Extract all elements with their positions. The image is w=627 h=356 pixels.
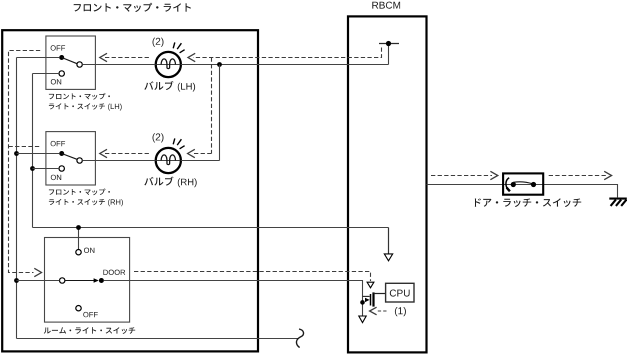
label DOOR (room switch) [103, 270, 125, 275]
label (2) above bulb RH [153, 133, 164, 142]
block U1: CPU box [386, 283, 414, 302]
switch lever (LH) [62, 58, 78, 65]
wire: DOOR terminal to RBCM transistor gate [104, 281, 363, 316]
label: RBCM [372, 2, 400, 9]
bulb RH (lamp symbol) [156, 148, 181, 173]
flow dash: RH OFF stub [9, 146, 41, 148]
wire: branch down to RH row [219, 65, 221, 161]
switch box: door latch switch [503, 173, 543, 194]
wire: ON bus run to RBCM [33, 227, 389, 229]
junction: room switch common tap [14, 278, 19, 283]
transistor Q1 gate lead [363, 295, 370, 297]
contact common terminal (RH switch) [77, 158, 82, 163]
wire: lamp feed riser in RBCM [388, 44, 390, 65]
flow arrow: toward RH switch [105, 153, 151, 155]
label: バルブ (LH) [144, 81, 173, 90]
switch box: room light switch [45, 238, 130, 323]
label: フロント・マップ・ (LH caption line1) [49, 93, 110, 100]
flow dash: DOOR signal to RBCM with down arrow [134, 272, 371, 282]
wire: LH common to bulb LH [82, 64, 155, 66]
label OFF (LH switch) [51, 45, 66, 50]
label ON (LH switch) [51, 79, 61, 84]
junction: RH OFF tap [14, 151, 19, 156]
component box: RBCM module [348, 16, 427, 352]
flow dash: vertical link to RH row [211, 58, 213, 154]
contact common terminal (LH switch) [77, 62, 82, 67]
switch box: front map light switch RH [46, 132, 96, 185]
component box: front map light enclosure [2, 30, 258, 351]
flow dash: link to bulb RH with arrow [193, 153, 212, 155]
wire: RBCM to door latch switch and ground [427, 185, 618, 198]
wire: ON bus drop inside RBCM [388, 228, 390, 254]
contact OFF terminal (room switch) [76, 306, 81, 311]
junction: RH branch tap on lamp feed [217, 62, 222, 67]
label: バルブ (RH) [144, 177, 173, 186]
ground symbol (chassis ground) [609, 199, 627, 206]
contact DOOR terminal (room switch) [99, 278, 104, 283]
flow arrow: RBCM to door latch [431, 175, 492, 177]
bulb LH (lamp symbol) [156, 52, 181, 77]
label: ライト・スイッチ (RH caption line2) [49, 199, 105, 205]
node: power source stub in RBCM [379, 43, 399, 45]
continuation squiggle (wire break symbol) [296, 329, 303, 348]
flow arrow: toward LH switch [105, 57, 151, 59]
contact ON terminal (room switch) [76, 250, 81, 255]
wire: LH OFF terminal to OFF bus [17, 57, 60, 59]
junction: RH ON tap [30, 166, 35, 171]
label OFF (RH switch) [51, 141, 66, 146]
switch lever (RH) [62, 154, 78, 160]
wire: LH ON terminal to ON bus [33, 73, 60, 75]
flow dash: RBCM to bulb LH with arrow [193, 48, 381, 58]
switch lever with arrow (room switch, DOOR position) [65, 280, 94, 282]
junction: transistor source node [360, 300, 365, 305]
wire: bulb LH to RBCM feed point [181, 64, 389, 66]
contact OFF terminal (RH switch) [59, 151, 64, 156]
flow arrow: latch switch to ground [549, 175, 606, 177]
flow dash: OFF-rail corner and vertical [9, 51, 41, 273]
contact: latch switch right terminal [531, 182, 536, 187]
transistor Q1 gate bar [370, 294, 372, 306]
flow arrow into room switch [34, 268, 41, 276]
label: CPU [390, 290, 410, 297]
wire: OFF bus bottom run [17, 338, 299, 340]
label: ライト・スイッチ (LH caption line2) [49, 103, 105, 109]
wire: RH common to bulb RH [82, 160, 155, 162]
wire: OFF bus vertical [16, 58, 18, 339]
contact OFF terminal (LH switch) [59, 55, 64, 60]
wire: RH OFF terminal to OFF bus [17, 153, 60, 155]
arrow: ON bus continuation (inside RBCM) [384, 254, 392, 261]
label: (1) [395, 307, 406, 316]
contact common terminal (room switch) [60, 278, 65, 283]
wire: RH ON terminal to ON bus [33, 168, 60, 170]
label OFF (room switch) [83, 312, 98, 317]
label: フロント・マップ・ライト (front map light title) [74, 3, 191, 12]
wire: room switch common to OFF bus [17, 280, 60, 282]
wire: transistor drain to CPU [374, 293, 386, 295]
latch hook symbol [506, 178, 510, 191]
wire: bulb RH to branch [181, 160, 220, 162]
label (2) above bulb LH [153, 38, 164, 47]
junction: room switch ON tap [76, 225, 81, 230]
latch switch lever [513, 182, 533, 184]
label: フロント・マップ・ (RH caption line1) [49, 189, 110, 196]
wire: ON bus vertical [32, 74, 34, 228]
callout (1) dashed arrow at transistor [378, 310, 387, 312]
light rays (bulb RH) [173, 138, 184, 148]
switch box: front map light switch LH [46, 36, 96, 89]
transistor Q1 arrow [365, 298, 370, 302]
label ON (room switch) [84, 248, 94, 253]
label: ルーム・ライト・スイッチ (room switch caption) [44, 327, 135, 334]
light rays (bulb LH) [173, 42, 184, 52]
label: ドア・ラッチ・スイッチ (door latch switch) [475, 198, 581, 207]
transistor Q1 channel bar [372, 292, 374, 306]
wire: feed from ON bus into room switch [78, 228, 80, 250]
contact ON terminal (RH switch) [59, 166, 64, 171]
contact: latch switch left terminal [511, 182, 516, 187]
contact ON terminal (LH switch) [59, 71, 64, 76]
label ON (RH switch) [51, 175, 61, 180]
ground arrow under transistor [359, 316, 366, 323]
